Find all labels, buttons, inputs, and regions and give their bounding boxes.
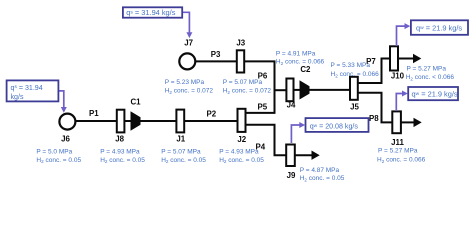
svg-text:J1: J1	[176, 135, 185, 144]
svg-text:H2 conc. = 0.066: H2 conc. = 0.066	[276, 59, 325, 66]
svg-text:H2 conc. < 0.066: H2 conc. < 0.066	[406, 74, 455, 81]
svg-text:P = 5.07 MPa: P = 5.07 MPa	[223, 79, 263, 86]
svg-text:J8: J8	[115, 135, 124, 144]
outflow arrow line J10	[397, 58, 415, 60]
svg-text:H2 conc. = 0.05: H2 conc. = 0.05	[100, 157, 145, 164]
withdrawal connector J11 to box	[396, 94, 402, 112]
wire J4-C2	[293, 89, 302, 91]
node J10	[390, 46, 398, 70]
svg-text:J5: J5	[350, 103, 359, 112]
outflow arrow line J11	[400, 121, 415, 123]
wire P8 J5-J11	[357, 93, 394, 123]
supply box qs J7	[123, 7, 182, 17]
svg-text:H2 conc. = 0.066: H2 conc. = 0.066	[331, 71, 380, 78]
svg-text:P = 4.93 MPa: P = 4.93 MPa	[219, 148, 259, 155]
svg-text:C2: C2	[300, 65, 311, 74]
withdrawal box qw J10	[411, 20, 468, 35]
node J3	[237, 50, 244, 72]
svg-text:H2 conc. = 0.05: H2 conc. = 0.05	[219, 157, 264, 164]
arrowhead J9	[312, 151, 320, 160]
node J5	[350, 77, 358, 100]
svg-text:J9: J9	[287, 171, 296, 180]
node J7 (circle)	[179, 53, 195, 69]
svg-text:P = 4.91 MPa: P = 4.91 MPa	[276, 50, 316, 57]
svg-text:qw = 21.9 kg/s: qw = 21.9 kg/s	[412, 90, 458, 99]
wire C2-J5	[309, 89, 352, 91]
svg-text:J6: J6	[61, 135, 70, 144]
svg-text:H2 conc. = 0.072: H2 conc. = 0.072	[223, 88, 272, 95]
svg-text:P = 5.27 MPa: P = 5.27 MPa	[378, 147, 418, 154]
svg-text:J3: J3	[236, 38, 245, 47]
wire P6/P5 stub into J4	[275, 89, 289, 91]
svg-text:P3: P3	[211, 50, 221, 59]
svg-text:P = 5.27 MPa: P = 5.27 MPa	[407, 65, 447, 72]
svg-text:H2 conc. = 0.05: H2 conc. = 0.05	[300, 175, 345, 182]
wire J8-C1	[123, 120, 132, 122]
svg-text:qs = 31.94 kg/s: qs = 31.94 kg/s	[126, 8, 175, 17]
svg-text:P1: P1	[89, 109, 99, 118]
parameter texts blue	[36, 50, 454, 182]
wire J3 to riser	[244, 61, 275, 113]
svg-text:J10: J10	[391, 72, 405, 81]
svg-text:qw = 21.9 kg/s: qw = 21.9 kg/s	[416, 24, 462, 33]
svg-text:P2: P2	[206, 110, 216, 119]
svg-text:P = 4.87 MPa: P = 4.87 MPa	[300, 167, 340, 174]
wire C1-J1	[139, 120, 178, 122]
wire P3 J7-J3	[194, 60, 238, 62]
svg-text:P = 5.07 MPa: P = 5.07 MPa	[161, 148, 201, 155]
compressor C2	[300, 80, 310, 99]
svg-text:J4: J4	[287, 100, 296, 109]
svg-text:qw = 20.08 kg/s: qw = 20.08 kg/s	[310, 123, 359, 131]
node J9	[286, 145, 295, 167]
node J11	[392, 111, 401, 133]
wire P1 J6-J8	[74, 120, 118, 122]
box texts	[11, 8, 463, 130]
svg-text:P5: P5	[257, 103, 267, 112]
svg-text:J7: J7	[184, 39, 193, 48]
svg-text:J2: J2	[237, 135, 246, 144]
wire P7 J5-J10	[357, 59, 392, 84]
wire P2 J1-J2	[183, 120, 239, 122]
node J6 (circle)	[59, 114, 75, 130]
svg-text:P8: P8	[369, 114, 379, 123]
withdrawal box qw J11	[408, 87, 458, 100]
svg-text:H2 conc. = 0.05: H2 conc. = 0.05	[36, 157, 81, 164]
compressor C1	[131, 111, 141, 130]
svg-text:H2 conc. = 0.05: H2 conc. = 0.05	[161, 157, 206, 164]
supply box qs J6	[7, 80, 59, 101]
wire P4 J2-J9	[246, 125, 288, 155]
svg-text:H2 conc. = 0.072: H2 conc. = 0.072	[165, 88, 214, 95]
svg-text:H2 conc. = 0.066: H2 conc. = 0.066	[377, 157, 426, 164]
node J4	[286, 79, 293, 102]
svg-text:kg/s: kg/s	[11, 93, 24, 101]
arrowhead J11	[414, 118, 422, 127]
node J2	[238, 109, 246, 132]
svg-text:C1: C1	[130, 97, 141, 106]
withdrawal connector J9 to box	[291, 125, 299, 143]
svg-text:J11: J11	[391, 138, 404, 147]
withdrawal box qw J9	[306, 118, 369, 132]
supply connector to J7	[182, 12, 189, 33]
supply connector to J6	[58, 91, 63, 108]
withdrawal connector J10 to box	[397, 26, 406, 46]
svg-text:P = 5.33 MPa: P = 5.33 MPa	[331, 62, 371, 69]
arrowhead J10	[413, 54, 421, 63]
node J8	[117, 110, 125, 133]
outflow arrow line J9	[294, 154, 313, 156]
svg-text:P = 5.0 MPa: P = 5.0 MPa	[36, 148, 72, 155]
svg-text:P = 5.23 MPa: P = 5.23 MPa	[165, 79, 205, 86]
node J1	[176, 110, 184, 133]
svg-text:P = 4.93 MPa: P = 4.93 MPa	[100, 148, 140, 155]
label J6	[61, 38, 405, 180]
